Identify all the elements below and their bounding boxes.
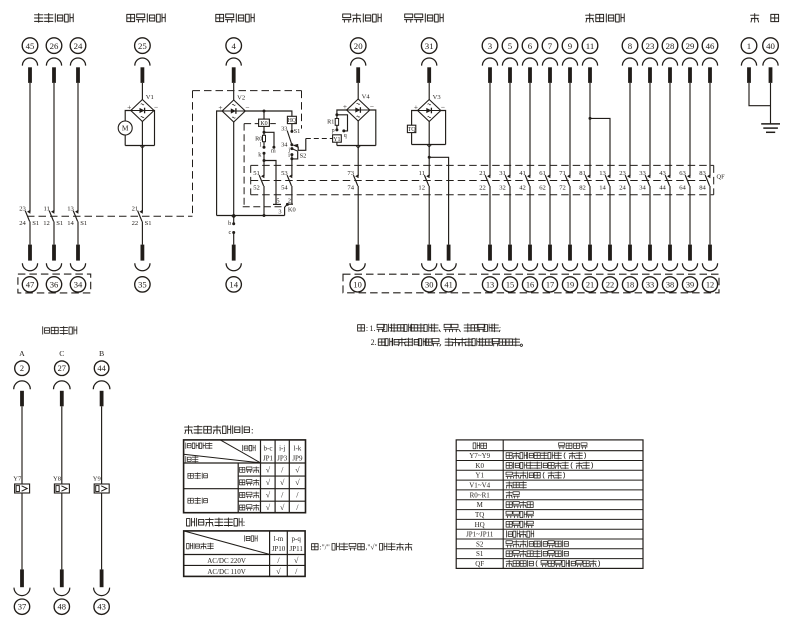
svg-text:12: 12: [418, 185, 425, 192]
svg-text:K0: K0: [260, 121, 267, 127]
svg-text:43: 43: [97, 602, 106, 612]
svg-text:61: 61: [539, 170, 546, 177]
svg-text:3: 3: [278, 208, 281, 215]
svg-text:52: 52: [253, 185, 260, 192]
svg-text:53: 53: [281, 170, 288, 177]
svg-text:14: 14: [229, 280, 238, 290]
svg-text:Y1: Y1: [333, 137, 340, 143]
svg-text:√: √: [266, 466, 271, 475]
svg-text:Y9: Y9: [93, 475, 102, 482]
svg-text:K0: K0: [475, 462, 484, 470]
svg-text:63: 63: [679, 170, 686, 177]
svg-text:M: M: [122, 124, 129, 133]
svg-text:41: 41: [519, 170, 526, 177]
svg-text:34: 34: [281, 142, 288, 149]
svg-text:V1: V1: [146, 94, 154, 101]
svg-text:15: 15: [506, 280, 514, 289]
svg-text:V2: V2: [237, 95, 245, 102]
svg-text:b: b: [228, 220, 231, 227]
svg-text:23: 23: [619, 170, 626, 177]
svg-text:JP1: JP1: [263, 454, 274, 462]
svg-text::: :: [366, 324, 368, 333]
svg-text:12: 12: [43, 220, 50, 227]
svg-text:S1: S1: [476, 550, 484, 558]
svg-text:S1: S1: [56, 220, 63, 227]
svg-text:81: 81: [579, 170, 586, 177]
svg-text:QF: QF: [475, 560, 484, 568]
svg-text:74: 74: [347, 185, 354, 192]
svg-text:JP1~JP11: JP1~JP11: [466, 531, 494, 539]
svg-text:42: 42: [519, 185, 526, 192]
svg-text:26: 26: [50, 41, 59, 51]
svg-text::"/": :"/": [320, 542, 330, 551]
svg-text:√: √: [266, 478, 271, 487]
svg-text:V3: V3: [433, 94, 442, 101]
svg-text:24: 24: [19, 220, 26, 227]
svg-text:71: 71: [559, 170, 566, 177]
svg-text:48: 48: [58, 602, 67, 612]
svg-text:17: 17: [546, 280, 554, 289]
svg-text:B: B: [99, 349, 104, 358]
svg-text:30: 30: [425, 280, 433, 289]
svg-text:HQ: HQ: [475, 521, 485, 529]
svg-text:34: 34: [639, 185, 646, 192]
svg-text:32: 32: [499, 185, 506, 192]
svg-text:44: 44: [97, 364, 106, 373]
svg-text:b-c: b-c: [264, 444, 273, 452]
svg-text:,"√": ,"√": [366, 542, 378, 551]
svg-text:33: 33: [639, 170, 646, 177]
svg-text:33: 33: [281, 126, 287, 133]
svg-text:√: √: [280, 503, 285, 512]
svg-text:31: 31: [425, 41, 434, 51]
svg-text:1: 1: [747, 41, 751, 51]
svg-text:39: 39: [686, 280, 694, 289]
svg-text:2: 2: [20, 364, 24, 373]
svg-text:√: √: [295, 466, 300, 475]
svg-text:HQ: HQ: [288, 118, 297, 124]
svg-text:S2: S2: [476, 540, 484, 548]
svg-text:TQ: TQ: [475, 511, 484, 519]
svg-text:29: 29: [686, 41, 695, 51]
svg-text:√: √: [266, 491, 271, 500]
svg-text:Y7: Y7: [13, 475, 22, 482]
svg-text:9: 9: [568, 41, 573, 51]
svg-text:4: 4: [231, 41, 236, 51]
svg-text:11: 11: [43, 205, 49, 212]
svg-text:c: c: [228, 229, 231, 236]
svg-text:16: 16: [526, 280, 534, 289]
svg-text:i-j: i-j: [279, 444, 285, 452]
svg-text:l-m: l-m: [274, 535, 284, 543]
svg-text:64: 64: [679, 185, 686, 192]
svg-text:JP10: JP10: [272, 545, 286, 553]
svg-text:Y1: Y1: [475, 472, 484, 480]
svg-text:2.: 2.: [371, 338, 377, 347]
svg-text:22: 22: [132, 220, 139, 227]
svg-text:40: 40: [766, 41, 775, 51]
svg-text:23: 23: [19, 205, 26, 212]
svg-text:14: 14: [599, 185, 606, 192]
svg-text:27: 27: [58, 364, 66, 373]
svg-text:28: 28: [666, 41, 675, 51]
svg-text:20: 20: [354, 41, 363, 51]
svg-text:AC/DC 110V: AC/DC 110V: [207, 568, 245, 576]
svg-text:C: C: [59, 349, 64, 358]
svg-text:Y7~Y9: Y7~Y9: [469, 452, 490, 460]
svg-text::: :: [243, 518, 246, 528]
svg-text:3: 3: [488, 41, 493, 51]
svg-text:37: 37: [18, 602, 27, 612]
svg-text:R0~R1: R0~R1: [470, 491, 491, 499]
svg-text:51: 51: [253, 170, 260, 177]
svg-text:7: 7: [548, 41, 553, 51]
svg-text:21: 21: [586, 280, 594, 289]
svg-text:√: √: [295, 478, 300, 487]
svg-text:22: 22: [479, 185, 486, 192]
svg-text:18: 18: [626, 280, 634, 289]
svg-text:q: q: [344, 133, 347, 139]
svg-text:34: 34: [74, 280, 83, 290]
svg-text:K0: K0: [288, 206, 296, 213]
svg-text:5: 5: [508, 41, 513, 51]
svg-text:41: 41: [444, 280, 452, 289]
svg-text:47: 47: [26, 280, 35, 290]
svg-text:M: M: [477, 501, 484, 509]
svg-text:√: √: [276, 567, 281, 576]
svg-text:S1: S1: [32, 220, 39, 227]
svg-text:JP3: JP3: [277, 454, 288, 462]
svg-text:36: 36: [50, 280, 59, 290]
svg-text:19: 19: [566, 280, 574, 289]
svg-text::: :: [251, 426, 254, 436]
svg-text:45: 45: [26, 41, 35, 51]
svg-text:m: m: [271, 149, 276, 155]
svg-text:√: √: [280, 478, 285, 487]
svg-text:84: 84: [699, 185, 706, 192]
svg-text:54: 54: [281, 185, 288, 192]
svg-text:11: 11: [586, 41, 594, 51]
svg-text:12: 12: [706, 280, 714, 289]
svg-text:8: 8: [628, 41, 633, 51]
svg-text:13: 13: [486, 280, 494, 289]
svg-text:5: 5: [276, 198, 279, 205]
svg-text:83: 83: [699, 170, 706, 177]
svg-text:QF: QF: [717, 173, 726, 180]
svg-text:24: 24: [619, 185, 626, 192]
svg-text:46: 46: [706, 41, 715, 51]
svg-text:10: 10: [353, 280, 361, 289]
svg-text:S2: S2: [300, 153, 307, 160]
svg-text:13: 13: [599, 170, 606, 177]
svg-text:A: A: [19, 349, 25, 358]
svg-text:21: 21: [479, 170, 486, 177]
svg-text:Y8: Y8: [53, 475, 62, 482]
svg-text:AC/DC 220V: AC/DC 220V: [207, 557, 246, 565]
svg-text:44: 44: [659, 185, 666, 192]
svg-text:35: 35: [138, 280, 147, 290]
svg-text:43: 43: [659, 170, 666, 177]
svg-text:62: 62: [539, 185, 546, 192]
svg-text:S1: S1: [145, 220, 152, 227]
svg-text:S1: S1: [294, 128, 301, 135]
svg-text:11: 11: [419, 170, 425, 177]
svg-text:l-k: l-k: [294, 444, 302, 452]
svg-text:JP9: JP9: [292, 454, 303, 462]
svg-text:31: 31: [499, 170, 506, 177]
svg-text:1.: 1.: [370, 324, 376, 333]
svg-text:V4: V4: [362, 94, 371, 101]
svg-text:p-q: p-q: [292, 535, 302, 543]
svg-text:22: 22: [606, 280, 614, 289]
svg-text:V1~V4: V1~V4: [469, 482, 490, 490]
svg-text:√: √: [266, 503, 271, 512]
svg-text:24: 24: [74, 41, 83, 51]
svg-text:25: 25: [138, 41, 147, 51]
svg-text:21: 21: [132, 205, 139, 212]
svg-text:TQ: TQ: [408, 127, 417, 133]
svg-text:38: 38: [666, 280, 674, 289]
svg-text:82: 82: [579, 185, 586, 192]
svg-text:73: 73: [347, 170, 354, 177]
svg-text:72: 72: [559, 185, 566, 192]
svg-text:R1: R1: [327, 118, 334, 125]
svg-text:6: 6: [528, 41, 533, 51]
svg-text:p: p: [332, 128, 335, 134]
svg-text:S1: S1: [80, 220, 87, 227]
svg-text:13: 13: [67, 205, 74, 212]
svg-text:33: 33: [646, 280, 654, 289]
svg-text:l: l: [260, 141, 262, 148]
svg-text:14: 14: [67, 220, 74, 227]
svg-text:23: 23: [646, 41, 655, 51]
svg-text:JP11: JP11: [290, 545, 304, 553]
svg-text:√: √: [294, 556, 299, 565]
